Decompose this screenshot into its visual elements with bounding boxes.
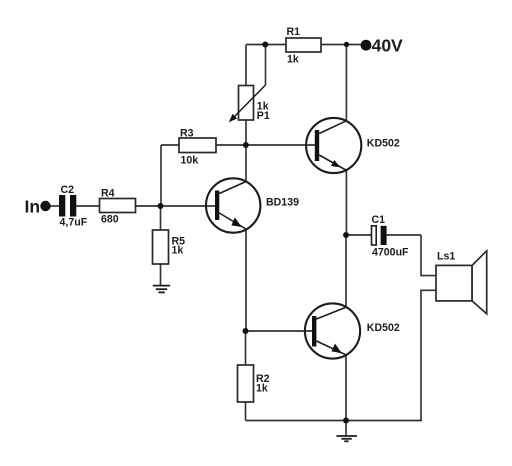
terminal 40V bbox=[361, 36, 403, 56]
node A junction (R3/P1/Q1 collector/Q2 base) bbox=[243, 142, 249, 148]
svg-text:4,7uF: 4,7uF bbox=[60, 217, 88, 229]
svg-text:680: 680 bbox=[101, 214, 119, 226]
wire node D to Q3 base bbox=[246, 330, 313, 332]
node D junction (Q1 emitter/Q3 base/R2) bbox=[243, 328, 249, 334]
svg-text:1k: 1k bbox=[256, 383, 268, 395]
terminal In bbox=[25, 197, 51, 217]
wire pot top feed bbox=[245, 45, 247, 86]
resistor R4 bbox=[100, 188, 136, 226]
wire Q2 emitter to node B bbox=[345, 170, 347, 235]
wire Q3 collector vertical bbox=[345, 235, 347, 307]
node junction R1-wiper bbox=[262, 42, 268, 48]
wire bottom rail bbox=[246, 420, 423, 422]
wire C1 to corner bbox=[387, 234, 421, 236]
wire speaker lower return bbox=[421, 290, 436, 420]
wire speaker upper drop bbox=[421, 235, 436, 276]
transistor Q2 KD502 top bbox=[306, 118, 400, 173]
wire Q2 collector vertical bbox=[345, 45, 347, 121]
resistor R3 bbox=[179, 128, 216, 167]
svg-text:KD502: KD502 bbox=[367, 137, 400, 149]
wire R4 to Q1 base bbox=[136, 205, 216, 207]
svg-text:1k: 1k bbox=[287, 54, 299, 66]
resistor R2 bbox=[238, 365, 270, 402]
resistor R1 bbox=[286, 26, 321, 66]
wire R3 left vertical bbox=[160, 145, 162, 206]
ground bottom bbox=[336, 436, 357, 441]
wire Q3 emitter vertical bbox=[345, 355, 347, 421]
wire node C to R5 bbox=[160, 206, 162, 230]
wire Q1 emitter to node D bbox=[245, 229, 247, 331]
wire pot wiper drop bbox=[265, 45, 267, 86]
svg-text:Ls1: Ls1 bbox=[437, 250, 455, 262]
wire node A to Q2 base bbox=[216, 144, 315, 146]
svg-text:In: In bbox=[25, 197, 41, 217]
svg-text:R4: R4 bbox=[101, 188, 115, 200]
wire pot bottom to node A bbox=[245, 120, 247, 145]
wire C2 to R4 bbox=[76, 205, 99, 207]
speaker Ls1 bbox=[436, 250, 487, 314]
potentiometer P1 bbox=[229, 85, 270, 122]
svg-text:C1: C1 bbox=[372, 214, 386, 226]
svg-text:P1: P1 bbox=[257, 110, 270, 122]
wire R3 left stub bbox=[161, 144, 179, 146]
svg-text:R3: R3 bbox=[180, 128, 194, 140]
svg-text:C2: C2 bbox=[61, 184, 75, 196]
svg-text:KD502: KD502 bbox=[367, 322, 400, 334]
wire node D to R2 bbox=[245, 331, 247, 365]
ground R5 bbox=[153, 286, 170, 293]
wire R5 to ground bbox=[160, 264, 162, 285]
svg-text:10k: 10k bbox=[181, 154, 199, 166]
capacitor C1 bbox=[372, 214, 410, 258]
capacitor C2 bbox=[59, 184, 88, 229]
node C junction (R4/R3/R5/Q1 base) bbox=[158, 203, 164, 209]
resistor R5 bbox=[153, 230, 186, 264]
wire ground stub bottom bbox=[345, 421, 347, 436]
node E junction bottom rail bbox=[343, 418, 349, 424]
transistor Q3 KD502 bottom bbox=[305, 303, 400, 358]
wire R2 to bottom rail bbox=[245, 402, 247, 421]
node B junction (Q2 emitter/Q3 collector/C1) bbox=[343, 232, 349, 238]
svg-text:BD139: BD139 bbox=[266, 196, 299, 208]
wire top rail right segment bbox=[321, 44, 361, 46]
wire top rail left segment bbox=[246, 44, 286, 46]
wire node B to C1 bbox=[346, 234, 372, 236]
svg-text:1k: 1k bbox=[172, 245, 184, 257]
node junction 40V bbox=[344, 42, 349, 47]
transistor Q1 BD139 bbox=[206, 178, 299, 232]
svg-text:40V: 40V bbox=[372, 36, 403, 56]
svg-text:R1: R1 bbox=[287, 26, 301, 38]
wire input to C2 bbox=[45, 205, 59, 207]
wire Q1 collector vertical bbox=[245, 145, 247, 182]
svg-text:4700uF: 4700uF bbox=[372, 246, 409, 258]
